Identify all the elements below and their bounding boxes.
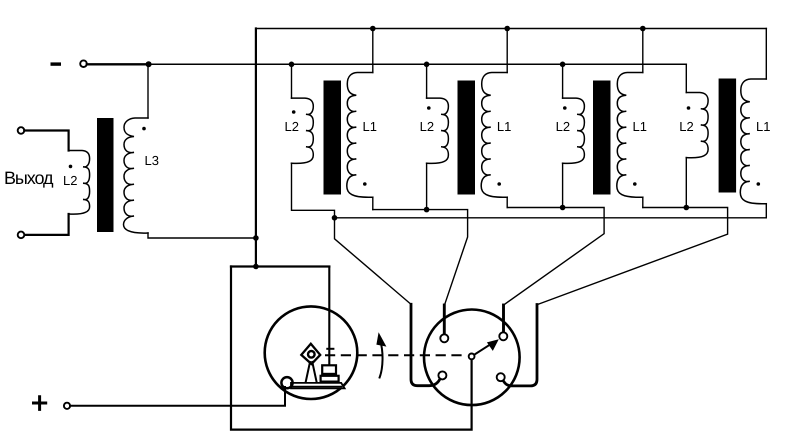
- lever arm bar: [291, 383, 345, 388]
- wire main left vertical: [255, 29, 257, 267]
- svg-text:L3: L3: [145, 153, 159, 168]
- label minus: [51, 62, 62, 65]
- rotation arrowhead: [376, 332, 386, 346]
- bus1: top bus: [256, 28, 766, 30]
- polarity dot L2 unit2: [427, 106, 431, 110]
- label plus: [34, 397, 46, 410]
- junction dot box top / main vertical: [253, 264, 259, 270]
- wire L2 bottom unit4: [685, 158, 687, 208]
- cam diamond: [301, 344, 320, 364]
- bus2: minus bus: [149, 63, 687, 65]
- wire breaker contact feed: [328, 267, 330, 364]
- junction dot rail B: [332, 215, 338, 221]
- wire L1 top unit3: [642, 29, 644, 73]
- junction dot L3/main vertical: [253, 235, 259, 241]
- wire L1 top unit1: [372, 29, 374, 73]
- rail A2 (unit2 L1 to distributor UR wire): [504, 208, 604, 306]
- inductor L3: [124, 118, 149, 233]
- core unit4: [719, 79, 737, 193]
- svg-text:L2: L2: [420, 119, 434, 134]
- terminal: output top: [18, 127, 25, 134]
- svg-text:L2: L2: [63, 173, 77, 188]
- contact tick: [327, 348, 333, 350]
- terminal: output bottom: [18, 232, 25, 239]
- distributor UR lead: [502, 305, 505, 332]
- wire L2 top unit3: [562, 64, 564, 98]
- contact block upper: [322, 365, 336, 374]
- polarity dot L3: [142, 127, 146, 131]
- rotor arrowhead: [487, 339, 499, 351]
- wire L2 top unit2: [426, 64, 428, 98]
- junction dot bus1 unit2: [504, 26, 510, 32]
- svg-text:L2: L2: [679, 119, 693, 134]
- polarity dot L2 unit4: [687, 106, 691, 110]
- junction dot rail A unit3: [560, 205, 566, 211]
- core: output transformer: [97, 118, 114, 232]
- wire L3 top (from minus bus junction): [147, 64, 149, 118]
- junction dot rail A unit4: [684, 205, 690, 211]
- svg-text:L1: L1: [497, 119, 511, 134]
- svg-text:L1: L1: [756, 119, 770, 134]
- lever hatch: [292, 386, 342, 388]
- junction dot minus bus / L3: [146, 61, 152, 67]
- cam hub ring: [308, 351, 315, 358]
- contact UR: [499, 332, 507, 340]
- core unit3: [593, 81, 611, 195]
- wire L3 bottom to main vertical: [148, 233, 256, 238]
- distributor UL lead: [443, 305, 446, 334]
- wire L1 top unit4: [765, 29, 767, 80]
- inductor L1 unit2: [481, 73, 507, 198]
- terminal: plus: [64, 403, 70, 409]
- wire L1 top unit2: [506, 29, 508, 73]
- polarity dot L2 unit1: [292, 110, 296, 114]
- rotor arm: [474, 345, 490, 355]
- wire output top: [24, 131, 68, 151]
- terminal: minus: [80, 60, 87, 67]
- distributor circle: [424, 310, 520, 406]
- wire minus terminal to junction: [87, 63, 149, 65]
- contact LR: [497, 373, 505, 381]
- polarity dot L2 output: [69, 165, 73, 169]
- junction dot bus2 unit3: [560, 62, 566, 68]
- inductor L2 unit4: [686, 93, 708, 158]
- inductor L2 unit2: [427, 98, 449, 163]
- wire box top edge: [231, 265, 329, 267]
- breaker circle: [265, 306, 358, 399]
- cam stand: [306, 362, 317, 382]
- svg-text:L1: L1: [363, 119, 377, 134]
- wire L1 bottom unit1 rail: [372, 197, 374, 209]
- wire box left+bottom edge: [231, 267, 472, 430]
- lever spring curl: [281, 377, 292, 388]
- dashed link line: [326, 354, 464, 356]
- svg-text:L2: L2: [285, 119, 299, 134]
- wire L2 bottom unit1 to rail B: [292, 163, 335, 218]
- junction dot bus1 unit3: [640, 26, 646, 32]
- wire L2 top unit1: [291, 64, 293, 98]
- wire L2 top unit4: [685, 64, 687, 92]
- contact LL: [438, 371, 446, 379]
- polarity dot L1 unit2: [497, 182, 501, 186]
- wire L1 bottom unit2 rail: [506, 197, 508, 207]
- inductor L2 unit3: [563, 98, 585, 163]
- core unit1: [324, 81, 342, 195]
- wire L1 bottom unit3 rail: [642, 197, 644, 207]
- contact UL: [440, 334, 448, 342]
- inductor L2 (output winding): [69, 151, 90, 215]
- junction dot bus2 unit2: [424, 62, 430, 68]
- wire L2 bottom unit3: [562, 163, 564, 207]
- wire plus to breaker lever: [70, 387, 285, 406]
- svg-text:L2: L2: [556, 119, 570, 134]
- core unit2: [458, 81, 476, 195]
- wire output bottom: [24, 214, 68, 235]
- inductor L1 unit4: [740, 79, 766, 204]
- polarity dot L1 unit3: [633, 182, 637, 186]
- rail B (unit4 L1 to unit1 L2 / distributor LL wire): [335, 218, 767, 304]
- inductor L1 unit1: [347, 73, 373, 198]
- polarity dot L2 unit3: [563, 106, 567, 110]
- rotor center: [469, 354, 475, 360]
- junction dot rail A unit2: [424, 207, 430, 213]
- junction dot bus2 unit1: [289, 62, 295, 68]
- polarity dot L1 unit1: [363, 182, 367, 186]
- svg-text:L1: L1: [633, 119, 647, 134]
- wire L1 bottom unit4 to rail B: [765, 204, 767, 218]
- inductor L1 unit3: [617, 73, 643, 198]
- junction dot bus1 unit1: [370, 26, 376, 32]
- contact block lower: [321, 376, 339, 382]
- distributor LL lead: [411, 304, 440, 385]
- rotation arrow arc: [380, 341, 383, 378]
- svg-text:Выход: Выход: [4, 168, 54, 188]
- rail A1 (unit1 L1 to distributor UL wire): [373, 210, 468, 305]
- polarity dot L1 unit4: [757, 182, 761, 186]
- inductor L2 unit1: [292, 98, 314, 163]
- wire L2 bottom unit2: [426, 163, 428, 209]
- rail A3 (unit3 L1 to distributor LR wire): [538, 208, 728, 305]
- distributor LR lead: [504, 305, 537, 386]
